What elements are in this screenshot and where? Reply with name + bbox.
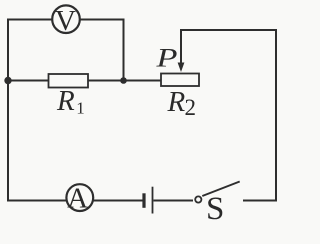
- svg-text:A: A: [67, 183, 88, 215]
- svg-text:2: 2: [185, 95, 197, 120]
- svg-text:1: 1: [76, 99, 85, 118]
- svg-text:V: V: [55, 5, 76, 37]
- svg-text:R: R: [167, 86, 186, 118]
- svg-text:P: P: [155, 43, 177, 72]
- svg-text:S: S: [206, 191, 224, 227]
- svg-text:R: R: [56, 85, 75, 117]
